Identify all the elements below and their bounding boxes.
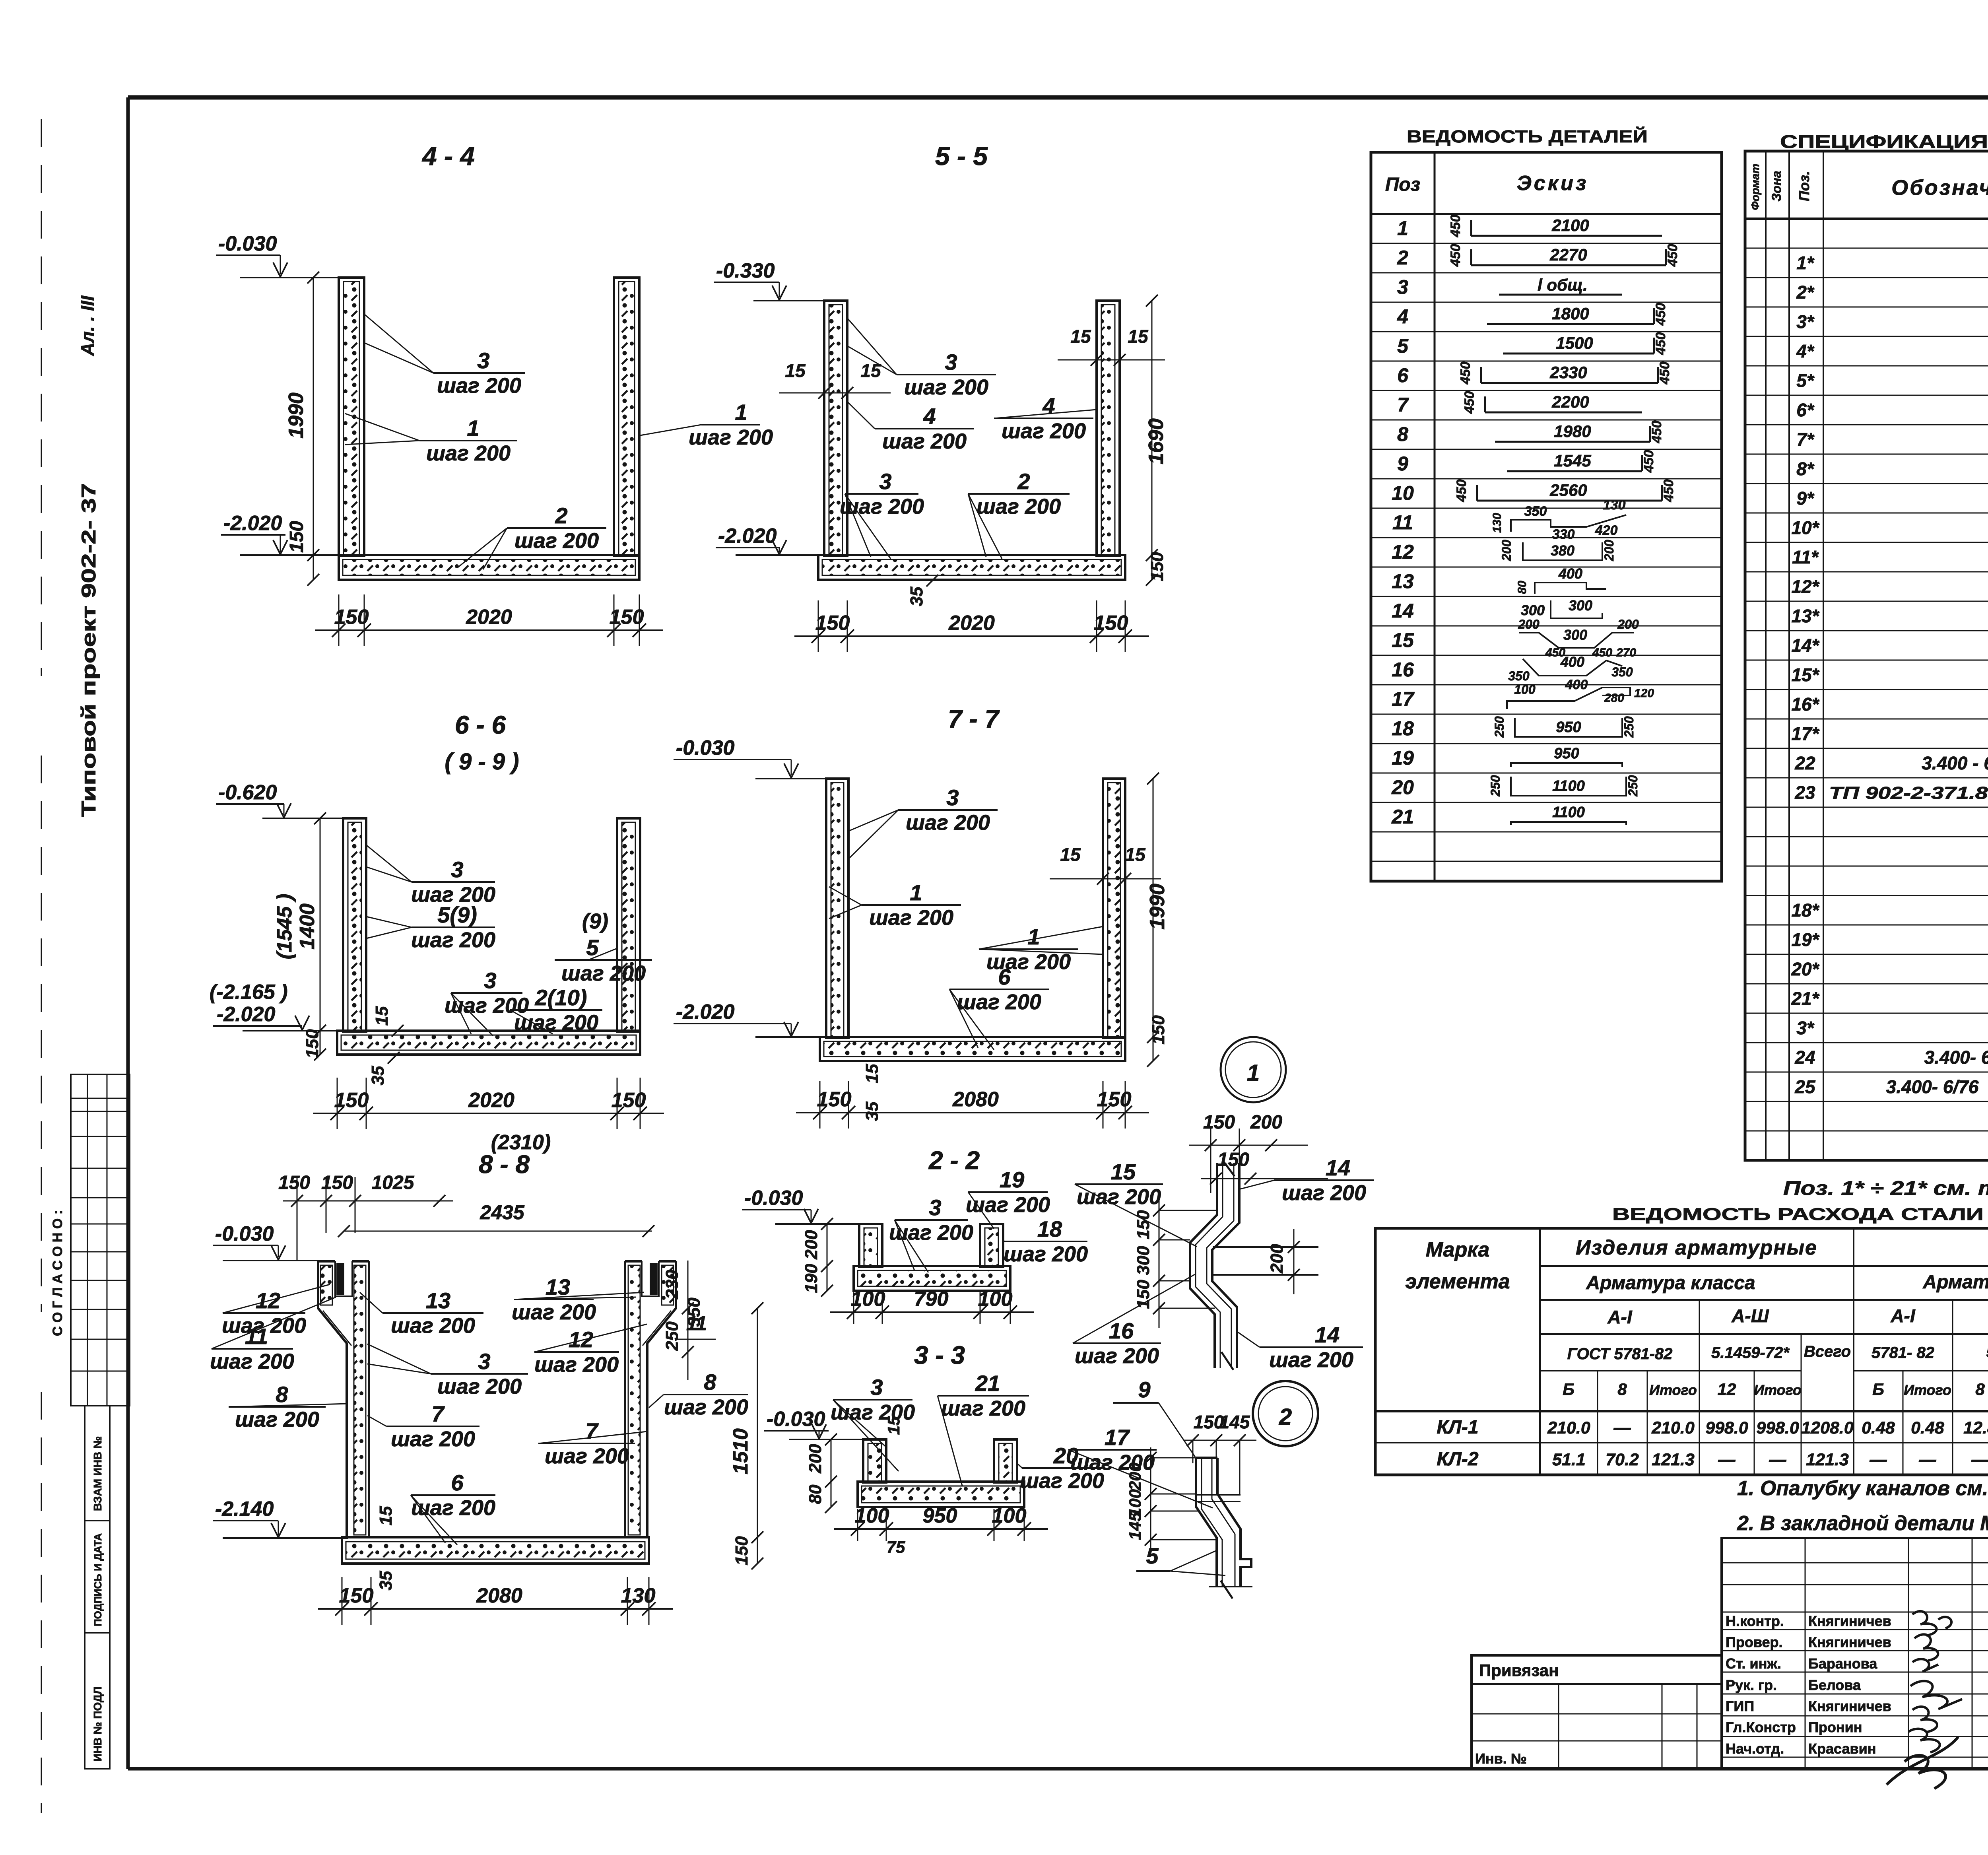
node 2 top dims 150 145 (1184, 1412, 1256, 1495)
svg-text:шаг 200: шаг 200 (514, 1011, 598, 1035)
svg-text:1: 1 (735, 400, 747, 425)
svg-text:0.48: 0.48 (1862, 1418, 1895, 1437)
title block signatures scribbles (1887, 1611, 1962, 1789)
svg-text:120: 120 (1634, 687, 1654, 700)
svg-text:2270: 2270 (1549, 245, 1587, 264)
section 4-4 label 2 shag 200 (457, 503, 606, 569)
section 5-5 dim 35 (907, 575, 938, 606)
section 3-3 level -0.030 (764, 1408, 863, 1439)
svg-text:6: 6 (1397, 364, 1409, 387)
svg-text:100: 100 (851, 1288, 885, 1311)
svg-text:1990: 1990 (285, 392, 308, 439)
svg-text:шаг 200: шаг 200 (977, 495, 1061, 519)
svg-text:450: 450 (1649, 421, 1664, 444)
svg-text:-2.020: -2.020 (718, 524, 777, 548)
section 8-8 left wall with corbel (318, 1261, 369, 1538)
node 2 left dims 200 100 145 (1126, 1447, 1217, 1551)
svg-text:300: 300 (1569, 597, 1592, 614)
svg-text:0.48: 0.48 (1911, 1418, 1944, 1437)
svg-text:200: 200 (1499, 540, 1514, 561)
svg-text:2200: 2200 (1551, 392, 1589, 411)
section 7-7 left wall (826, 779, 848, 1038)
section 7-7 vertical dim 1990 (1146, 773, 1169, 1067)
svg-text:420: 420 (1595, 523, 1618, 538)
section 4-4 level -0.030 (216, 232, 339, 278)
table steel headers (1405, 1235, 1988, 1399)
svg-text:3: 3 (1397, 276, 1408, 298)
svg-text:450: 450 (1657, 362, 1672, 385)
svg-text:Н.контр.: Н.контр. (1726, 1613, 1784, 1629)
svg-text:3: 3 (879, 469, 891, 494)
svg-text:шаг 200: шаг 200 (664, 1395, 748, 1419)
svg-text:2020: 2020 (466, 606, 512, 629)
svg-text:Княгиничев: Княгиничев (1808, 1634, 1891, 1650)
svg-text:75: 75 (887, 1538, 905, 1556)
section 8-8 right wall with corbel (625, 1261, 676, 1538)
svg-text:шаг 200: шаг 200 (1075, 1344, 1159, 1368)
svg-text:3.400 - 6/76: 3.400 - 6/76 (1922, 753, 1988, 773)
section 7-7 label 1 left (829, 880, 961, 930)
section 5-5 level -0.330 (714, 259, 824, 301)
svg-text:15: 15 (376, 1506, 396, 1525)
svg-text:-0.030: -0.030 (676, 736, 735, 759)
svg-text:ВЕДОМОСТЬ РАСХОДА СТАЛИ НА: ВЕДОМОСТЬ РАСХОДА СТАЛИ НА ЭЛЕМЕНТ, КГ (1612, 1205, 1988, 1224)
section 2-2 label 3 (889, 1195, 973, 1272)
section 2-2 left dims 200 190 (802, 1218, 833, 1297)
svg-text:Всего: Всего (1804, 1343, 1851, 1360)
svg-text:350: 350 (1611, 665, 1633, 679)
svg-text:998.0: 998.0 (1756, 1418, 1799, 1437)
svg-text:Эскиз: Эскиз (1517, 172, 1589, 195)
svg-text:18: 18 (1392, 717, 1414, 740)
svg-text:-0.030: -0.030 (767, 1408, 825, 1431)
svg-text:150: 150 (286, 521, 307, 553)
svg-text:3: 3 (484, 968, 496, 993)
svg-text:12: 12 (1392, 541, 1414, 563)
svg-text:-2.140: -2.140 (215, 1498, 274, 1521)
svg-text:5: 5 (1146, 1543, 1159, 1568)
svg-text:35: 35 (368, 1066, 388, 1085)
section 6-6 bottom dims (313, 1078, 664, 1129)
section 6-6 dim (2310) (491, 1131, 551, 1154)
svg-text:145: 145 (1126, 1512, 1144, 1540)
svg-text:Обозначение: Обозначение (1891, 176, 1988, 200)
section 2-2 label 18 (1003, 1216, 1088, 1266)
svg-text:2080: 2080 (476, 1584, 522, 1607)
section 8-8 bottom slab (342, 1537, 649, 1564)
section 6-6 vertical dims (1545) 1400 (273, 812, 326, 1061)
node 2 label 17 (1068, 1425, 1213, 1508)
svg-text:150: 150 (817, 1088, 852, 1111)
svg-text:121.3: 121.3 (1652, 1450, 1695, 1469)
svg-text:—: — (1718, 1450, 1736, 1469)
section 4-4 right wall (614, 278, 639, 556)
section 3-3 bottom dims (834, 1504, 1048, 1541)
svg-text:5 - 5: 5 - 5 (935, 141, 988, 171)
svg-text:80: 80 (806, 1484, 825, 1504)
svg-text:шаг 200: шаг 200 (906, 811, 990, 835)
svg-text:1208.0: 1208.0 (1801, 1418, 1854, 1437)
svg-text:1: 1 (467, 416, 479, 441)
svg-text:А-Ш: А-Ш (1731, 1305, 1769, 1326)
node 1 right dim 200 (1267, 1229, 1300, 1294)
svg-text:шаг 200: шаг 200 (210, 1350, 294, 1373)
svg-text:230: 230 (662, 1270, 682, 1299)
svg-text:400: 400 (1558, 565, 1582, 582)
svg-text:1: 1 (1027, 924, 1040, 949)
svg-text:200: 200 (802, 1230, 821, 1260)
svg-text:14: 14 (1326, 1155, 1350, 1180)
section 4-4 bottom slab (339, 555, 639, 580)
svg-text:-0.030: -0.030 (744, 1187, 803, 1210)
svg-text:шаг 200: шаг 200 (957, 990, 1041, 1014)
svg-text:950: 950 (1554, 745, 1579, 762)
svg-text:шаг 200: шаг 200 (514, 529, 599, 553)
section 5-5 label 3 shag 200 (847, 318, 996, 399)
svg-text:15: 15 (1392, 629, 1414, 651)
svg-text:3: 3 (870, 1375, 883, 1400)
svg-text:—: — (1769, 1450, 1787, 1469)
svg-text:-2.020: -2.020 (676, 1000, 735, 1024)
svg-text:шаг 200: шаг 200 (512, 1300, 596, 1324)
table steel consumption title (1612, 1205, 1988, 1224)
section 6-6 label 3 (366, 845, 495, 907)
svg-text:13: 13 (1392, 570, 1414, 592)
svg-text:200: 200 (1250, 1112, 1282, 1133)
svg-text:15: 15 (785, 360, 806, 381)
svg-text:35: 35 (376, 1571, 396, 1590)
svg-text:21*: 21* (1791, 988, 1819, 1009)
svg-text:шаг 200: шаг 200 (235, 1408, 319, 1432)
section 2-2 level -0.030 (742, 1187, 859, 1224)
svg-text:35: 35 (907, 587, 926, 606)
svg-text:элемента: элемента (1405, 1270, 1510, 1293)
section 8-8 dim 2435 (338, 1201, 654, 1237)
svg-text:2435: 2435 (480, 1201, 524, 1224)
svg-text:450: 450 (1661, 480, 1676, 503)
node 1 label 15 (1075, 1159, 1197, 1247)
svg-text:1980: 1980 (1554, 422, 1591, 441)
svg-text:18*: 18* (1791, 900, 1819, 921)
svg-text:10: 10 (1392, 482, 1414, 504)
svg-text:—: — (1919, 1450, 1937, 1469)
svg-text:8: 8 (704, 1369, 716, 1395)
section 6-6 dim 35 (368, 1052, 400, 1085)
section 5-5 vertical dim 1690 (1145, 295, 1168, 586)
svg-text:1990: 1990 (1146, 884, 1169, 930)
section 8-8 label 7 right (538, 1418, 647, 1468)
svg-text:3: 3 (945, 350, 957, 375)
svg-text:280: 280 (1604, 691, 1624, 705)
section 7-7 dim 15 35 (862, 1064, 882, 1121)
section 5-5 right wall (1097, 301, 1120, 556)
section 4-4 title (421, 141, 475, 171)
title block signatures table (1722, 1538, 1988, 1769)
svg-text:13: 13 (546, 1274, 570, 1299)
svg-text:шаг 200: шаг 200 (437, 374, 521, 398)
svg-text:9: 9 (1138, 1377, 1150, 1402)
svg-text:450: 450 (1665, 244, 1680, 267)
svg-text:Княгиничев: Княгиничев (1808, 1698, 1891, 1714)
table specification headers (1749, 164, 1988, 210)
svg-text:450: 450 (1454, 480, 1469, 503)
section 8-8 level -0.030 (213, 1222, 318, 1261)
svg-text:200: 200 (1518, 617, 1540, 631)
svg-text:200: 200 (1617, 617, 1639, 631)
svg-text:Типовой проект 902-2- 37: Типовой проект 902-2- 37 (78, 483, 100, 817)
title block privyazan table (1472, 1655, 1722, 1769)
svg-text:КЛ-1: КЛ-1 (1437, 1417, 1478, 1438)
svg-text:1500: 1500 (1556, 334, 1593, 352)
svg-text:1100: 1100 (1552, 804, 1585, 821)
svg-text:шаг 200: шаг 200 (561, 961, 646, 985)
svg-text:5(9): 5(9) (437, 902, 477, 927)
section 5-5 title (935, 141, 988, 171)
svg-text:130: 130 (1603, 497, 1626, 513)
section 4-4 level -2.020 (221, 512, 342, 555)
svg-text:шаг 200: шаг 200 (840, 495, 924, 519)
svg-text:7*: 7* (1796, 429, 1815, 450)
svg-text:150: 150 (612, 1089, 646, 1112)
section 7-7 title (948, 705, 1000, 733)
svg-text:3.400- 6/76: 3.400- 6/76 (1886, 1076, 1979, 1097)
svg-text:100: 100 (992, 1504, 1027, 1527)
svg-text:17*: 17* (1791, 723, 1819, 744)
svg-text:ИНВ № ПОДЛ: ИНВ № ПОДЛ (91, 1687, 104, 1762)
svg-text:1: 1 (1247, 1060, 1260, 1086)
svg-text:150: 150 (1149, 1015, 1168, 1045)
section 8-8 label 6 (411, 1470, 495, 1545)
table vedomost detaley grid (1371, 152, 1722, 881)
svg-text:9: 9 (1397, 453, 1408, 475)
svg-text:шаг 200: шаг 200 (1070, 1451, 1155, 1474)
svg-text:-0.330: -0.330 (716, 259, 775, 282)
svg-text:300: 300 (1563, 627, 1587, 643)
svg-text:14: 14 (1315, 1322, 1340, 1347)
svg-text:2100: 2100 (1551, 216, 1589, 235)
svg-text:2: 2 (1017, 469, 1030, 494)
svg-text:100: 100 (978, 1288, 1013, 1311)
svg-text:10*: 10* (1791, 517, 1819, 538)
svg-text:15: 15 (372, 1006, 392, 1026)
svg-text:150: 150 (1134, 1210, 1153, 1239)
node 2 label 5 (1136, 1543, 1225, 1575)
svg-text:шаг 200: шаг 200 (889, 1221, 973, 1245)
section 6-6 left wall (343, 818, 366, 1031)
svg-text:3.400- 6/76: 3.400- 6/76 (1924, 1047, 1988, 1068)
section 6-6 label (9)/5 right (555, 909, 652, 985)
svg-text:450: 450 (1448, 215, 1463, 238)
section 6-6 bottom slab (337, 1031, 640, 1055)
section 7-7 level -0.030 (674, 736, 826, 779)
svg-text:А-I: А-I (1890, 1305, 1916, 1326)
section 8-8 top dims 150 150 1025 (278, 1172, 453, 1261)
node 1 label 16 (1073, 1274, 1195, 1368)
svg-text:450: 450 (1458, 362, 1473, 385)
section 3-3 left dims 200 280 80 (806, 1433, 837, 1513)
svg-text:11: 11 (686, 1312, 707, 1334)
table vedomost detaley position numbers (1391, 217, 1415, 828)
left margin text Tipovoy proekt 902-2-37 (78, 483, 100, 817)
svg-text:7 - 7: 7 - 7 (948, 705, 1000, 733)
svg-text:7: 7 (585, 1418, 599, 1443)
svg-text:2080: 2080 (952, 1088, 999, 1111)
svg-text:2020: 2020 (948, 612, 995, 635)
svg-text:Формат: Формат (1749, 164, 1761, 210)
section 4-4 left wall (339, 278, 364, 556)
svg-text:Арматура класса: Арматура класса (1586, 1272, 1755, 1294)
svg-text:ПОДПИСЬ И ДАТА: ПОДПИСЬ И ДАТА (92, 1533, 104, 1626)
svg-text:8: 8 (1975, 1380, 1985, 1399)
svg-text:15*: 15* (1791, 664, 1819, 685)
section 6-6 level -2.020 (-2.165) (210, 981, 337, 1031)
svg-text:145: 145 (1219, 1412, 1250, 1432)
section 5-5 label 4 shag 200 right (994, 393, 1097, 443)
svg-text:1545: 1545 (1554, 451, 1591, 470)
svg-text:210.0: 210.0 (1651, 1418, 1695, 1437)
svg-text:1*: 1* (1796, 253, 1815, 273)
svg-text:Поз: Поз (1385, 174, 1420, 195)
svg-text:5*: 5* (1796, 370, 1815, 391)
svg-text:Белова: Белова (1808, 1677, 1861, 1693)
svg-text:19: 19 (1392, 747, 1414, 769)
svg-text:150: 150 (610, 606, 644, 629)
section 5-5 label 3 bottom (840, 469, 924, 559)
section 8-8 label 12 right (534, 1324, 647, 1377)
left margin trim line (41, 119, 42, 1813)
svg-text:12*: 12* (1791, 576, 1819, 597)
svg-text:15: 15 (1070, 326, 1091, 347)
svg-text:ТП 902-2-371.83КЖИ-МН6: ТП 902-2-371.83КЖИ-МН6 (1829, 783, 1988, 803)
svg-text:8: 8 (1617, 1380, 1627, 1399)
svg-text:80: 80 (1516, 581, 1529, 594)
svg-text:Ал. . III: Ал. . III (77, 295, 98, 356)
notes under steel table (1737, 1477, 1988, 1535)
section 6-6 dim 15 (372, 1006, 404, 1037)
svg-text:Б: Б (1872, 1380, 1884, 1399)
svg-text:шаг 200: шаг 200 (426, 441, 511, 465)
svg-text:13*: 13* (1791, 606, 1819, 626)
svg-text:998.0: 998.0 (1705, 1418, 1748, 1437)
svg-text:-0.030: -0.030 (215, 1222, 274, 1245)
section 3-3 tray (858, 1439, 1024, 1507)
svg-text:100: 100 (855, 1504, 889, 1527)
svg-text:3*: 3* (1796, 1018, 1815, 1038)
svg-text:шаг 200: шаг 200 (966, 1193, 1050, 1217)
svg-text:150: 150 (1217, 1149, 1249, 1170)
svg-text:1100: 1100 (1552, 778, 1585, 794)
section 2-2 bottom dims (830, 1288, 1034, 1324)
svg-text:1. Опалубку каналов см. лист: 1. Опалубку каналов см. лист 7. (1737, 1477, 1988, 1500)
svg-text:1: 1 (1397, 217, 1408, 239)
svg-text:1: 1 (910, 880, 922, 905)
svg-text:12.8: 12.8 (1963, 1418, 1988, 1437)
svg-text:(1545 ): (1545 ) (273, 894, 296, 960)
svg-text:130: 130 (621, 1584, 656, 1607)
svg-text:8: 8 (1397, 423, 1408, 445)
note poz 1-21 see table (1783, 1177, 1988, 1199)
svg-text:790: 790 (914, 1288, 949, 1311)
section 4-4 bottom dims (315, 594, 663, 646)
svg-text:8 - 8: 8 - 8 (479, 1150, 530, 1179)
section 8-8 dims 15 35 (376, 1506, 396, 1590)
svg-text:400: 400 (1560, 654, 1584, 670)
svg-text:450: 450 (1462, 391, 1477, 414)
svg-text:—: — (1613, 1418, 1631, 1437)
svg-text:16: 16 (1109, 1318, 1134, 1343)
svg-text:2560: 2560 (1549, 481, 1587, 499)
svg-text:17: 17 (1105, 1425, 1130, 1450)
section 8-8 label 3 (367, 1344, 528, 1399)
svg-text:190: 190 (802, 1264, 821, 1293)
svg-text:шаг 200: шаг 200 (534, 1353, 619, 1377)
section 8-8 label 8 left (229, 1382, 348, 1432)
svg-text:450: 450 (1592, 646, 1612, 659)
section 7-7 label 1 right (979, 924, 1103, 974)
section 6-6 right wall (617, 818, 640, 1031)
svg-text:шаг 200: шаг 200 (411, 928, 495, 952)
svg-text:950: 950 (923, 1504, 957, 1527)
svg-text:-0.620: -0.620 (218, 781, 277, 804)
svg-text:шаг 200: шаг 200 (1269, 1348, 1353, 1372)
svg-text:Баранова: Баранова (1808, 1655, 1877, 1672)
svg-text:150: 150 (334, 1089, 369, 1112)
svg-text:70.2: 70.2 (1606, 1450, 1639, 1469)
svg-text:3: 3 (451, 857, 463, 882)
section 4-4 right label 1 shag 200 (640, 400, 773, 449)
svg-text:шаг 200: шаг 200 (882, 429, 967, 453)
section 7-7 bottom slab (820, 1037, 1125, 1061)
svg-text:2330: 2330 (1549, 363, 1587, 382)
svg-text:1025: 1025 (372, 1172, 415, 1193)
svg-text:150: 150 (1097, 1088, 1132, 1111)
section 8-8 right dims 230 350 250 (662, 1261, 704, 1380)
svg-text:5: 5 (1397, 335, 1409, 357)
svg-text:1510: 1510 (729, 1428, 752, 1474)
svg-text:150: 150 (303, 1029, 322, 1059)
svg-text:СПЕЦИФИКАЦИЯ МОНОЛИТНЫХ КАНА: СПЕЦИФИКАЦИЯ МОНОЛИТНЫХ КАНАЛОВ КЛ1, КЛ2 (1780, 131, 1988, 152)
svg-text:2: 2 (1279, 1404, 1292, 1430)
section 5-5 label 4 shag 200 left (847, 402, 974, 453)
section 6-6 title (445, 711, 519, 775)
svg-text:15: 15 (1128, 326, 1149, 347)
svg-text:100: 100 (1514, 682, 1536, 697)
svg-text:150: 150 (1094, 612, 1128, 635)
section 5-5 dim 15 15 right (1058, 326, 1165, 366)
section 2-2 tray (854, 1224, 1010, 1291)
svg-text:Провер.: Провер. (1726, 1634, 1783, 1650)
svg-text:51.1: 51.1 (1552, 1450, 1586, 1469)
svg-text:7: 7 (1397, 394, 1409, 416)
svg-text:11*: 11* (1792, 547, 1819, 567)
svg-text:2. В закладной детали МН 23: 2. В закладной детали МН 23 анкера обрез… (1737, 1512, 1988, 1535)
section 5-5 bottom slab (818, 555, 1125, 580)
svg-text:-2.020: -2.020 (223, 512, 282, 535)
section 3-3 label 20 (1017, 1443, 1104, 1493)
svg-text:КЛ-2: КЛ-2 (1437, 1449, 1478, 1470)
svg-text:l общ.: l общ. (1538, 276, 1588, 294)
svg-text:1400: 1400 (296, 903, 319, 950)
svg-text:150: 150 (339, 1584, 374, 1607)
svg-text:200: 200 (806, 1444, 825, 1474)
svg-text:17: 17 (1392, 688, 1415, 710)
section 8-8 label 11 right (676, 1312, 716, 1339)
section 3-3 dim 75 (887, 1538, 905, 1556)
svg-text:шаг 200: шаг 200 (869, 906, 953, 930)
svg-text:15: 15 (884, 1416, 903, 1435)
svg-text:15: 15 (1125, 844, 1146, 865)
svg-text:6: 6 (451, 1470, 464, 1495)
